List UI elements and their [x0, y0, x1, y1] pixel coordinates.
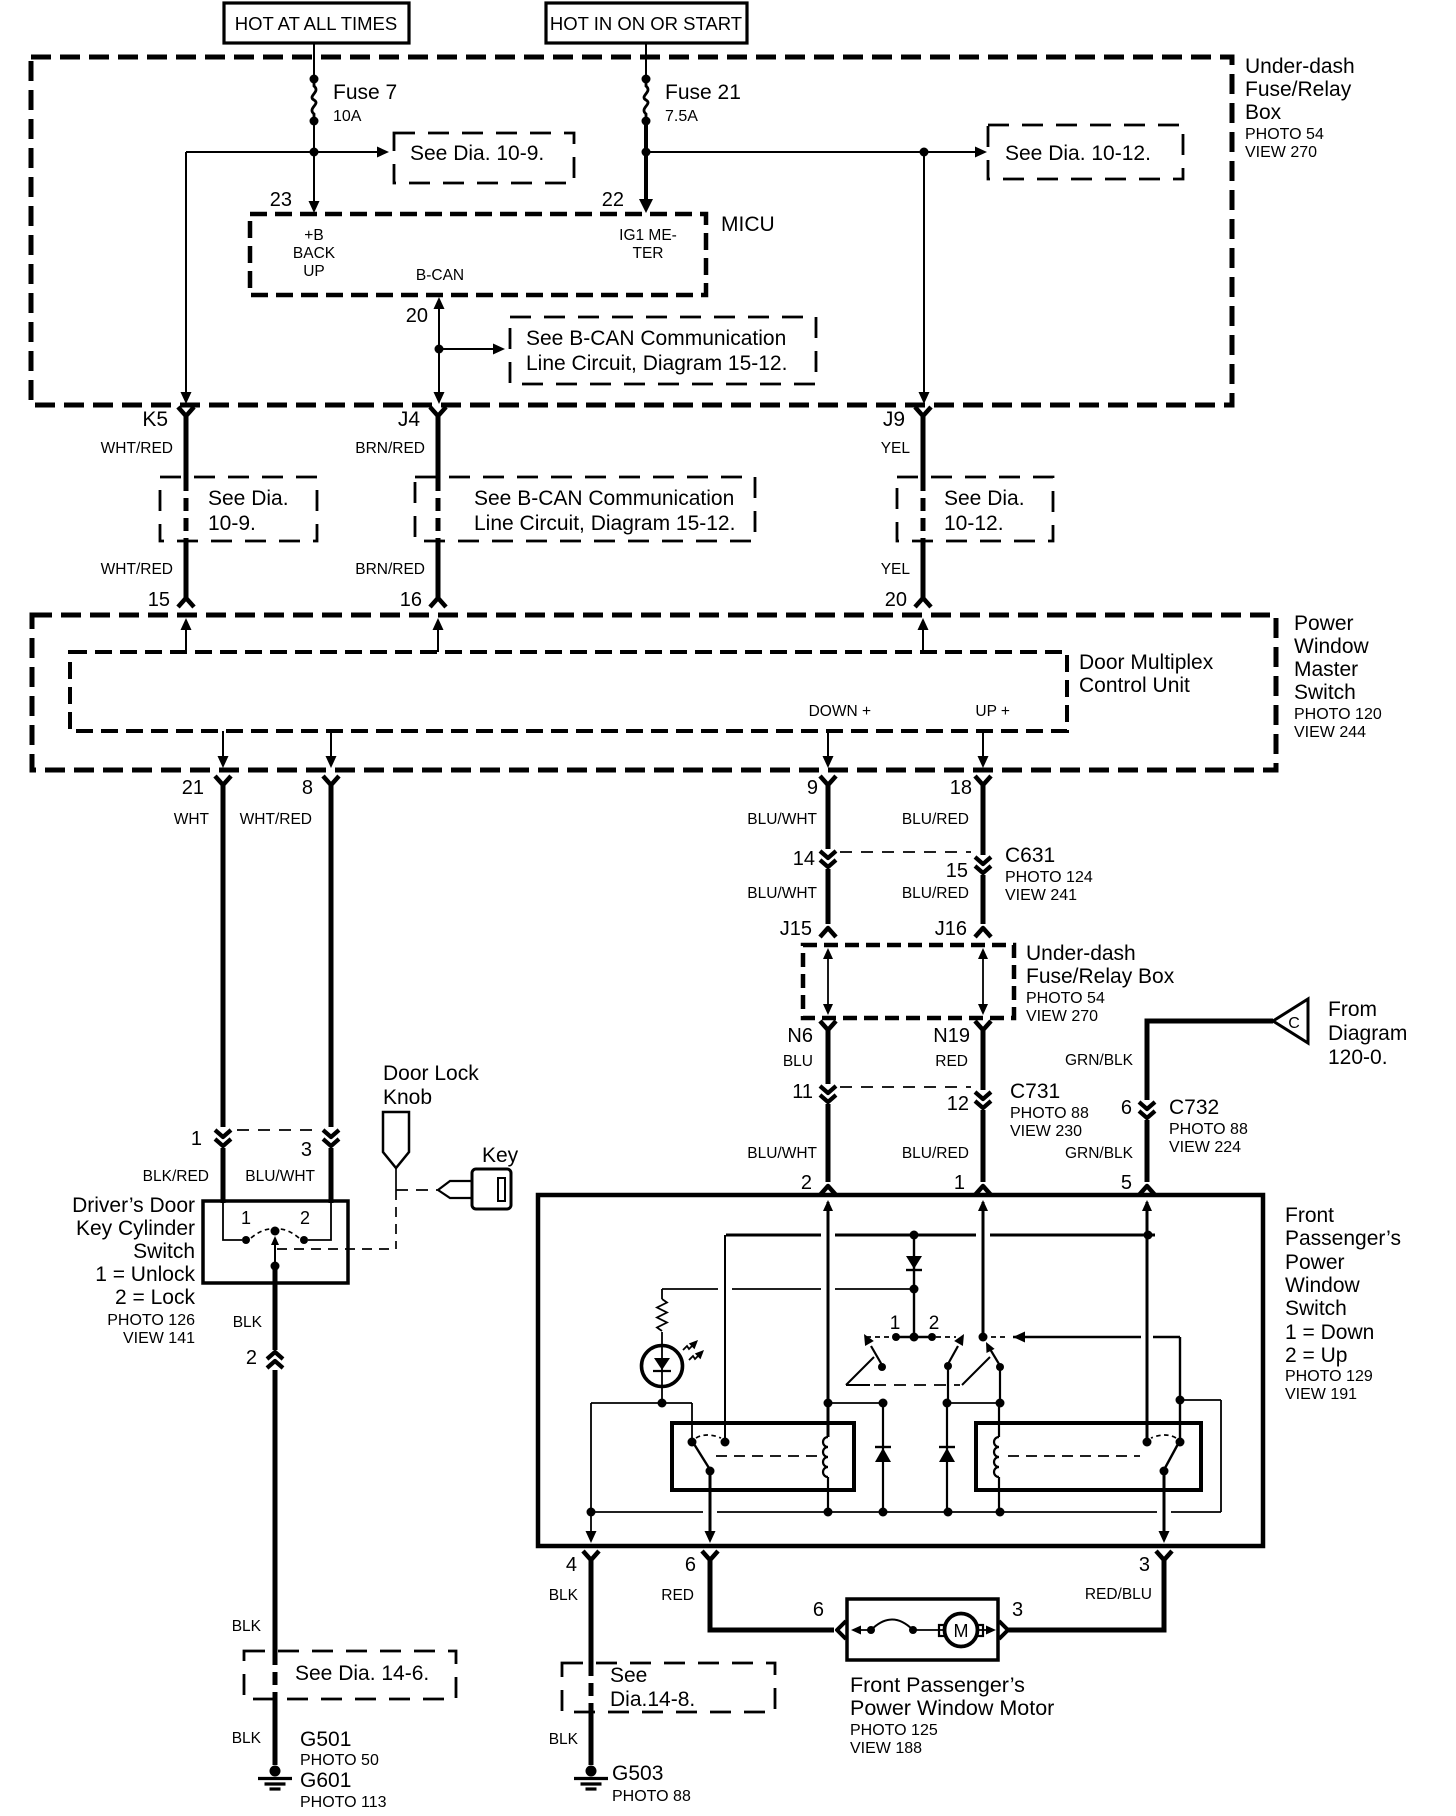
- svg-text:23: 23: [270, 189, 292, 211]
- svg-text:Driver’s Door: Driver’s Door: [72, 1194, 195, 1217]
- svg-text:Line Circuit, Diagram 15-12.: Line Circuit, Diagram 15-12.: [474, 512, 735, 535]
- svg-text:7.5A: 7.5A: [665, 108, 698, 125]
- svg-text:PHOTO 120: PHOTO 120: [1294, 706, 1382, 723]
- svg-text:YEL: YEL: [881, 561, 911, 578]
- svg-text:+B: +B: [304, 227, 323, 244]
- svg-text:BLU/WHT: BLU/WHT: [245, 1168, 315, 1185]
- svg-text:WHT/RED: WHT/RED: [101, 440, 173, 457]
- svg-text:Switch: Switch: [1294, 681, 1356, 704]
- svg-text:PHOTO 124: PHOTO 124: [1005, 869, 1093, 886]
- svg-text:2 = Lock: 2 = Lock: [115, 1286, 195, 1309]
- svg-text:Fuse 7: Fuse 7: [333, 81, 397, 104]
- svg-text:Master: Master: [1294, 658, 1358, 681]
- svg-text:WHT/RED: WHT/RED: [101, 561, 173, 578]
- svg-text:UP: UP: [303, 263, 325, 280]
- svg-text:10-12.: 10-12.: [944, 512, 1004, 535]
- svg-text:J4: J4: [398, 408, 421, 431]
- svg-text:C731: C731: [1010, 1080, 1060, 1103]
- svg-text:RED: RED: [661, 1587, 694, 1604]
- svg-text:BLU/WHT: BLU/WHT: [747, 1145, 817, 1162]
- svg-text:10-9.: 10-9.: [208, 512, 256, 535]
- svg-text:12: 12: [947, 1093, 969, 1115]
- svg-text:J15: J15: [780, 918, 812, 940]
- svg-text:120-0.: 120-0.: [1328, 1046, 1388, 1069]
- svg-text:Switch: Switch: [1285, 1297, 1347, 1320]
- svg-text:1 = Unlock: 1 = Unlock: [95, 1263, 195, 1286]
- svg-text:From: From: [1328, 998, 1377, 1021]
- svg-text:2 = Up: 2 = Up: [1285, 1344, 1347, 1367]
- svg-text:BLU/RED: BLU/RED: [902, 885, 969, 902]
- svg-text:WHT: WHT: [174, 811, 210, 828]
- svg-text:BLU/WHT: BLU/WHT: [747, 885, 817, 902]
- svg-text:Key: Key: [482, 1144, 519, 1167]
- svg-text:IG1 ME-: IG1 ME-: [619, 227, 677, 244]
- svg-text:DOWN +: DOWN +: [809, 703, 871, 720]
- svg-text:1: 1: [191, 1128, 202, 1150]
- svg-text:20: 20: [406, 305, 428, 327]
- svg-text:C: C: [1288, 1015, 1300, 1032]
- svg-text:See Dia. 10-9.: See Dia. 10-9.: [410, 142, 544, 165]
- svg-text:Under-dash: Under-dash: [1245, 55, 1355, 78]
- svg-text:Fuse/Relay Box: Fuse/Relay Box: [1026, 965, 1175, 988]
- svg-text:3: 3: [301, 1139, 312, 1161]
- svg-text:BLK: BLK: [549, 1587, 579, 1604]
- svg-text:MICU: MICU: [721, 213, 775, 236]
- svg-text:8: 8: [302, 777, 313, 799]
- svg-text:PHOTO 113: PHOTO 113: [300, 1794, 387, 1811]
- svg-text:Power: Power: [1285, 1251, 1345, 1274]
- svg-text:BRN/RED: BRN/RED: [355, 440, 425, 457]
- svg-text:Door Lock: Door Lock: [383, 1062, 479, 1085]
- svg-text:TER: TER: [633, 245, 664, 262]
- svg-text:See Dia.: See Dia.: [208, 487, 289, 510]
- svg-text:5: 5: [1121, 1172, 1132, 1194]
- svg-text:4: 4: [566, 1554, 577, 1576]
- svg-text:BLK: BLK: [232, 1730, 262, 1747]
- svg-text:See Dia. 14-6.: See Dia. 14-6.: [295, 1662, 429, 1685]
- svg-text:See Dia.: See Dia.: [944, 487, 1025, 510]
- svg-text:J9: J9: [883, 408, 905, 431]
- svg-text:11: 11: [792, 1081, 813, 1103]
- svg-text:GRN/BLK: GRN/BLK: [1065, 1145, 1134, 1162]
- svg-text:BLU: BLU: [783, 1053, 813, 1070]
- svg-text:GRN/BLK: GRN/BLK: [1065, 1052, 1134, 1069]
- svg-text:VIEW 230: VIEW 230: [1010, 1123, 1082, 1140]
- svg-text:Control Unit: Control Unit: [1079, 674, 1190, 697]
- svg-text:BLK: BLK: [549, 1731, 579, 1748]
- svg-text:HOT IN ON OR START: HOT IN ON OR START: [550, 13, 742, 34]
- svg-text:PHOTO 88: PHOTO 88: [1169, 1121, 1248, 1138]
- svg-text:N19: N19: [933, 1025, 970, 1047]
- svg-text:VIEW 241: VIEW 241: [1005, 887, 1077, 904]
- svg-text:BLK: BLK: [232, 1618, 262, 1635]
- svg-text:15: 15: [946, 860, 968, 882]
- svg-text:UP +: UP +: [975, 703, 1010, 720]
- svg-text:See B-CAN Communication: See B-CAN Communication: [526, 327, 786, 350]
- svg-text:K5: K5: [142, 408, 168, 431]
- svg-text:VIEW 141: VIEW 141: [123, 1330, 195, 1347]
- svg-text:PHOTO 129: PHOTO 129: [1285, 1368, 1373, 1385]
- svg-text:1: 1: [954, 1172, 965, 1194]
- svg-text:Door Multiplex: Door Multiplex: [1079, 651, 1214, 674]
- svg-text:PHOTO 54: PHOTO 54: [1245, 126, 1324, 143]
- svg-text:2: 2: [801, 1172, 812, 1194]
- svg-text:10A: 10A: [333, 108, 362, 125]
- svg-text:Power: Power: [1294, 612, 1354, 635]
- svg-text:Front: Front: [1285, 1204, 1334, 1227]
- svg-text:22: 22: [602, 189, 624, 211]
- svg-text:Passenger’s: Passenger’s: [1285, 1227, 1401, 1250]
- svg-text:Under-dash: Under-dash: [1026, 942, 1136, 965]
- svg-text:C631: C631: [1005, 844, 1055, 867]
- svg-text:14: 14: [793, 848, 815, 870]
- svg-text:2: 2: [246, 1347, 257, 1369]
- svg-text:6: 6: [685, 1554, 696, 1576]
- svg-text:Dia.14-8.: Dia.14-8.: [610, 1688, 695, 1711]
- svg-text:N6: N6: [787, 1025, 813, 1047]
- svg-text:18: 18: [950, 777, 972, 799]
- svg-text:3: 3: [1139, 1554, 1150, 1576]
- svg-text:Switch: Switch: [133, 1240, 195, 1263]
- svg-text:VIEW 270: VIEW 270: [1026, 1008, 1098, 1025]
- svg-text:M: M: [954, 1621, 969, 1641]
- svg-text:PHOTO 88: PHOTO 88: [1010, 1105, 1089, 1122]
- svg-text:6: 6: [813, 1599, 824, 1621]
- svg-text:PHOTO 50: PHOTO 50: [300, 1752, 379, 1769]
- svg-text:20: 20: [885, 589, 907, 611]
- svg-text:See: See: [610, 1664, 647, 1687]
- svg-text:C732: C732: [1169, 1096, 1219, 1119]
- svg-text:Line Circuit, Diagram 15-12.: Line Circuit, Diagram 15-12.: [526, 352, 787, 375]
- svg-text:BLK/RED: BLK/RED: [143, 1168, 209, 1185]
- svg-text:Diagram: Diagram: [1328, 1022, 1407, 1045]
- svg-text:WHT/RED: WHT/RED: [240, 811, 312, 828]
- svg-text:PHOTO 54: PHOTO 54: [1026, 990, 1105, 1007]
- svg-text:Key Cylinder: Key Cylinder: [76, 1217, 195, 1240]
- svg-text:Fuse/Relay: Fuse/Relay: [1245, 78, 1352, 101]
- svg-text:1: 1: [241, 1208, 251, 1228]
- svg-text:9: 9: [807, 777, 818, 799]
- svg-text:16: 16: [400, 589, 422, 611]
- svg-text:VIEW 244: VIEW 244: [1294, 724, 1366, 741]
- svg-text:3: 3: [1012, 1599, 1023, 1621]
- svg-text:B-CAN: B-CAN: [416, 267, 464, 284]
- svg-text:15: 15: [148, 589, 170, 611]
- svg-text:BLU/WHT: BLU/WHT: [747, 811, 817, 828]
- svg-text:6: 6: [1121, 1097, 1132, 1119]
- svg-text:Window: Window: [1294, 635, 1370, 658]
- svg-text:VIEW 270: VIEW 270: [1245, 144, 1317, 161]
- svg-text:2: 2: [300, 1208, 310, 1228]
- svg-text:BACK: BACK: [293, 245, 336, 262]
- svg-text:YEL: YEL: [881, 440, 911, 457]
- svg-text:2: 2: [929, 1313, 940, 1334]
- svg-text:RED: RED: [935, 1053, 968, 1070]
- svg-text:BLU/RED: BLU/RED: [902, 1145, 969, 1162]
- svg-text:VIEW 224: VIEW 224: [1169, 1139, 1241, 1156]
- svg-text:VIEW 191: VIEW 191: [1285, 1386, 1357, 1403]
- svg-text:Window: Window: [1285, 1274, 1361, 1297]
- svg-text:PHOTO 125: PHOTO 125: [850, 1722, 938, 1739]
- svg-text:21: 21: [182, 777, 204, 799]
- svg-text:See B-CAN Communication: See B-CAN Communication: [474, 487, 734, 510]
- svg-text:PHOTO 88: PHOTO 88: [612, 1788, 691, 1805]
- svg-text:G503: G503: [612, 1762, 663, 1785]
- svg-text:BLU/RED: BLU/RED: [902, 811, 969, 828]
- svg-text:Front Passenger’s: Front Passenger’s: [850, 1673, 1025, 1697]
- svg-text:Fuse 21: Fuse 21: [665, 81, 741, 104]
- svg-text:BRN/RED: BRN/RED: [355, 561, 425, 578]
- svg-text:G601: G601: [300, 1769, 351, 1792]
- svg-text:Box: Box: [1245, 101, 1282, 124]
- svg-text:J16: J16: [935, 918, 967, 940]
- svg-text:Knob: Knob: [383, 1086, 432, 1109]
- svg-text:RED/BLU: RED/BLU: [1085, 1586, 1152, 1603]
- svg-text:1 = Down: 1 = Down: [1285, 1321, 1374, 1344]
- svg-text:See Dia. 10-12.: See Dia. 10-12.: [1005, 142, 1151, 165]
- svg-text:Power Window Motor: Power Window Motor: [850, 1696, 1054, 1720]
- svg-text:HOT AT ALL TIMES: HOT AT ALL TIMES: [235, 13, 397, 34]
- svg-text:1: 1: [890, 1313, 901, 1334]
- svg-text:G501: G501: [300, 1728, 351, 1751]
- svg-text:VIEW 188: VIEW 188: [850, 1740, 922, 1757]
- svg-text:BLK: BLK: [233, 1314, 263, 1331]
- svg-text:PHOTO 126: PHOTO 126: [107, 1312, 195, 1329]
